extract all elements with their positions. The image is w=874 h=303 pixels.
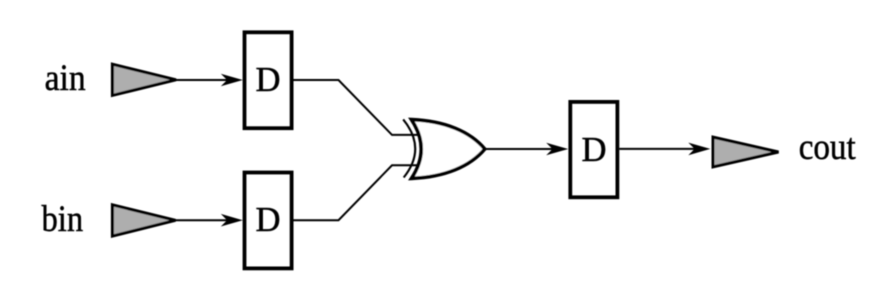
- svg-text:cout: cout: [799, 127, 857, 168]
- svg-text:D: D: [256, 60, 281, 99]
- wire bin to DFF2: [176, 219, 237, 221]
- arrowhead into cout port: [688, 143, 710, 156]
- D flip-flop DFF1: [245, 32, 292, 128]
- input port ain (buffer triangle): [112, 64, 176, 95]
- wire DFF2 to XOR lower input: [294, 165, 419, 220]
- svg-text:D: D: [256, 200, 281, 239]
- D flip-flop DFF3: [570, 102, 617, 197]
- wire DFF3 to cout port: [619, 148, 703, 150]
- arrowhead into DFF2: [221, 214, 243, 227]
- D flip-flop DFF2: [245, 173, 292, 269]
- output port cout (buffer triangle): [713, 137, 779, 167]
- input port bin (buffer triangle): [112, 205, 175, 236]
- arrowhead into DFF1: [221, 74, 243, 87]
- xor gate X1 body: [412, 120, 485, 179]
- xor gate X1 input arc: [403, 119, 415, 177]
- svg-text:ain: ain: [45, 58, 86, 99]
- wire DFF1 to XOR upper input: [294, 80, 419, 135]
- wire XOR output to DFF3: [485, 148, 562, 150]
- wire ain to DFF1: [176, 79, 236, 81]
- svg-text:D: D: [582, 130, 607, 169]
- arrowhead into DFF3: [546, 143, 568, 156]
- svg-text:bin: bin: [42, 199, 84, 240]
